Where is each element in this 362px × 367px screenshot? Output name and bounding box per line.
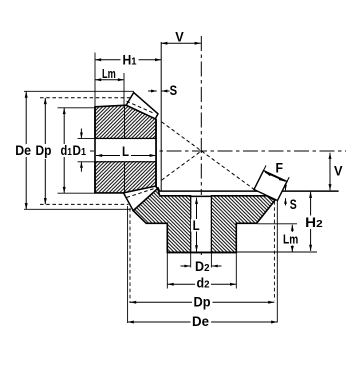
svg-text:Lm: Lm [102,67,116,81]
svg-text:S: S [170,83,178,98]
svg-text:V: V [175,30,184,45]
svg-text:F: F [276,160,284,175]
svg-text:Dp: Dp [36,143,52,158]
svg-text:De: De [192,314,209,329]
svg-text:Lm: Lm [283,232,298,246]
svg-text:L: L [193,218,200,233]
svg-text:H1: H1 [123,53,137,68]
svg-text:d1: d1 [61,143,73,158]
svg-text:V: V [334,164,343,179]
svg-text:H2: H2 [305,215,323,230]
svg-text:L: L [122,144,129,159]
svg-text:Dp: Dp [194,295,211,310]
svg-text:d2: d2 [197,276,210,291]
svg-text:S: S [290,197,297,212]
svg-text:De: De [15,143,31,158]
svg-text:D2: D2 [195,259,210,274]
svg-text:D1: D1 [73,143,87,158]
